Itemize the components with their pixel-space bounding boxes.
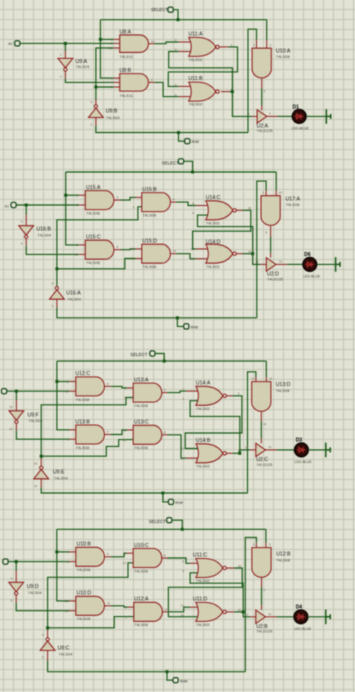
inverter U9:E output net: [41, 398, 133, 459]
inverter U16:A: [50, 290, 65, 299]
node U16:A out branch: [55, 267, 58, 270]
svg-text:12: 12: [251, 376, 255, 380]
node U9:E out branch: [40, 455, 43, 458]
svg-text:9: 9: [124, 552, 126, 556]
wire to U12:C pin9: [57, 381, 70, 383]
svg-text:6: 6: [42, 633, 44, 637]
svg-text:U11:B: U11:B: [189, 76, 204, 82]
terminal R/W: [163, 493, 169, 502]
inverter U9:D input wire: [15, 562, 17, 571]
wire SELECT bus: [66, 171, 277, 173]
and gate U15:C: [79, 244, 85, 246]
svg-text:74LS08: 74LS08: [142, 264, 157, 269]
svg-text:74LS08: 74LS08: [75, 445, 90, 450]
node U11:B output: [231, 90, 234, 93]
wire U11:C out to U11:D pin12: [226, 567, 234, 569]
svg-text:74LS02: 74LS02: [206, 264, 221, 269]
wire select right leg to U13:D: [265, 361, 267, 377]
node SELECT junction: [181, 528, 184, 531]
svg-text:1: 1: [60, 52, 62, 56]
buffer U2:D: [266, 258, 276, 271]
svg-text:6: 6: [175, 93, 177, 97]
svg-text:74LS125: 74LS125: [256, 629, 273, 634]
svg-text:3: 3: [238, 392, 240, 396]
svg-text:74LS125: 74LS125: [267, 276, 284, 281]
svg-text:U9:B: U9:B: [106, 108, 118, 114]
svg-text:U8:B: U8:B: [120, 68, 132, 74]
wire U8:A out to U11:A pin2: [149, 43, 155, 45]
svg-text:3: 3: [164, 388, 166, 392]
svg-text:5: 5: [66, 560, 68, 564]
wire to U15:A pin1: [66, 194, 80, 196]
wire U12:B out to U2:B enable: [261, 578, 263, 588]
svg-text:9: 9: [262, 191, 264, 195]
wire select right leg to U10:A: [266, 20, 268, 40]
wire U2:B out to D4: [266, 616, 277, 618]
svg-text:13: 13: [269, 376, 273, 380]
wire to U8:A pin1: [100, 38, 113, 40]
and gate U8:A: [114, 38, 120, 40]
svg-text:2: 2: [124, 396, 126, 400]
svg-text:2: 2: [175, 38, 177, 42]
svg-text:U11:A: U11:A: [189, 31, 204, 37]
svg-text:U14:D: U14:D: [206, 240, 221, 246]
svg-text:U10:D: U10:D: [77, 591, 92, 597]
wire A3 line: [8, 561, 70, 563]
wire U2:A out to D1: [267, 115, 278, 117]
wire D6 to ground: [317, 263, 336, 265]
svg-text:74LS125: 74LS125: [256, 462, 273, 467]
node select to U12:C pin9: [55, 380, 58, 383]
wire A1 line: [16, 204, 79, 206]
wire U10:C out to U11:C pin8: [162, 557, 168, 559]
LED D6: [303, 258, 317, 272]
inverter U9:B: [95, 100, 97, 105]
svg-text:3: 3: [165, 607, 167, 611]
wire U11:A out to U11:B pin5: [219, 46, 228, 48]
svg-text:2: 2: [51, 282, 53, 286]
svg-text:U15:D: U15:D: [142, 238, 157, 244]
wire U17:A out to U2:D enable: [270, 226, 272, 237]
svg-text:R/W: R/W: [175, 501, 183, 505]
node U14:D output: [251, 252, 254, 255]
nor gate U11:D: [196, 602, 223, 621]
node R/W junction: [177, 131, 180, 134]
svg-text:LED-BLUE: LED-BLUE: [295, 460, 313, 464]
node R/W junction: [176, 316, 179, 319]
wire R/W up to U10:A: [248, 29, 257, 132]
and gate U17:A: [261, 196, 280, 226]
wire U9:C input to R/W: [47, 650, 49, 660]
svg-text:12: 12: [65, 599, 69, 603]
svg-text:74LS125: 74LS125: [257, 128, 274, 133]
svg-text:SELECT: SELECT: [130, 352, 147, 357]
wire D3 to ground: [308, 449, 325, 451]
svg-text:13: 13: [65, 609, 69, 613]
node SELECT junction: [177, 18, 180, 21]
wire select left leg: [57, 529, 70, 601]
wire U13:D out to U2:C enable: [260, 412, 262, 422]
svg-text:11: 11: [268, 445, 271, 449]
svg-text:12: 12: [9, 427, 13, 431]
wire U12:A out to U11:D pin13: [163, 611, 170, 613]
svg-text:U12:C: U12:C: [75, 371, 90, 377]
svg-text:U13:C: U13:C: [134, 420, 149, 426]
svg-text:6: 6: [263, 588, 265, 592]
nor gate U14:A: [196, 386, 223, 405]
wire U12:C out to U13:A pin1: [105, 385, 111, 387]
wire SELECT to bus: [155, 354, 165, 362]
svg-text:U8:A: U8:A: [120, 30, 132, 36]
svg-text:U12:A: U12:A: [134, 597, 149, 603]
svg-text:U14:A: U14:A: [196, 380, 211, 386]
svg-text:1: 1: [124, 386, 126, 390]
svg-text:74LS08: 74LS08: [276, 388, 291, 393]
wire branch to U15:D pin13: [57, 259, 136, 269]
node select to U8:A pin1: [99, 38, 102, 41]
svg-text:74LS02: 74LS02: [196, 464, 211, 469]
svg-text:74LS02: 74LS02: [189, 57, 204, 62]
wire select right leg to U12:B: [265, 529, 267, 543]
svg-text:LED-BLUE: LED-BLUE: [303, 275, 321, 279]
svg-text:74LS04: 74LS04: [28, 590, 43, 595]
node U9:C out branch: [46, 626, 49, 629]
and gate U8:B: [114, 77, 120, 79]
svg-text:SELECT: SELECT: [151, 7, 168, 12]
svg-text:12: 12: [255, 260, 259, 264]
wire U9:D out to U10:D pin13: [15, 595, 17, 602]
svg-text:13: 13: [248, 250, 252, 254]
svg-text:4: 4: [67, 428, 69, 432]
svg-text:5: 5: [42, 655, 44, 659]
svg-text:3: 3: [269, 112, 271, 116]
wire U10:A out to U2:A enable: [261, 78, 263, 88]
svg-text:74LS11: 74LS11: [120, 93, 134, 98]
wire U9:A input: [64, 43, 66, 51]
svg-text:1: 1: [51, 304, 53, 308]
nor gate U11:A: [189, 37, 216, 56]
svg-text:13: 13: [181, 456, 185, 460]
ground: [326, 610, 330, 625]
terminal R/W: [177, 318, 184, 327]
svg-text:4: 4: [90, 100, 92, 104]
wire select right leg to U17:A: [275, 172, 277, 191]
svg-text:A0: A0: [8, 42, 12, 46]
svg-text:4: 4: [21, 242, 23, 246]
svg-text:10: 10: [75, 253, 79, 257]
ground: [326, 443, 330, 458]
wire R/W up to U13:D: [248, 372, 256, 493]
svg-text:2: 2: [270, 43, 272, 47]
wire U9:F out to U13:B pin5: [15, 424, 17, 431]
node U11:D output: [242, 610, 245, 613]
svg-text:13: 13: [131, 257, 135, 261]
svg-text:8: 8: [182, 559, 184, 563]
wire U11:D out to U2:B input: [243, 612, 250, 617]
and gate U13:B: [70, 429, 76, 431]
nor gate U14:B: [196, 444, 223, 463]
wire to U10:B pin4: [57, 551, 70, 553]
and gate U13:C: [133, 425, 162, 444]
svg-text:1: 1: [125, 605, 127, 609]
svg-text:12: 12: [151, 39, 155, 43]
svg-text:3: 3: [264, 89, 266, 93]
and gate U13:A: [133, 383, 162, 402]
svg-text:U11:D: U11:D: [193, 597, 208, 603]
svg-text:74LS08: 74LS08: [134, 622, 149, 627]
svg-text:1: 1: [182, 387, 184, 391]
svg-text:3: 3: [90, 123, 92, 127]
svg-text:D6: D6: [304, 252, 311, 258]
svg-text:4: 4: [111, 81, 113, 85]
wire U13:A out to U14:A pin1: [162, 392, 168, 394]
svg-text:2: 2: [111, 42, 113, 46]
svg-text:5: 5: [111, 85, 113, 89]
inverter U9:C output net: [48, 563, 134, 630]
wire U11:B out to U2:A input: [221, 91, 230, 93]
buffer U2:A: [257, 110, 267, 123]
svg-text:U15:B: U15:B: [142, 187, 157, 193]
wire U13:B out to U13:C pin9: [105, 434, 111, 436]
svg-text:9: 9: [124, 428, 126, 432]
and gate U10:A: [252, 48, 271, 78]
and gate U13:D: [252, 382, 271, 412]
and gate U15:B: [142, 193, 171, 212]
wire branch to U13:C pin10: [41, 440, 133, 457]
terminal A2: [2, 389, 7, 394]
wire U16:A input to R/W: [56, 299, 58, 307]
wire select left leg: [57, 361, 70, 430]
wire U9:A output to U8:B pin4: [64, 71, 66, 78]
inverter U9:C: [47, 630, 49, 638]
svg-text:A1: A1: [5, 205, 9, 209]
svg-text:74LS02: 74LS02: [206, 220, 221, 225]
svg-text:74LS08: 74LS08: [86, 210, 101, 215]
inverter U9:A: [58, 58, 73, 67]
wire SELECT to bus: [183, 161, 192, 172]
wire U9:E input to R/W: [40, 479, 42, 488]
wire U8:B out to U11:B pin6: [149, 81, 155, 83]
svg-text:11: 11: [268, 612, 271, 616]
and gate U15:D: [142, 244, 171, 263]
buffer U2:C: [256, 443, 266, 456]
svg-text:D1: D1: [293, 104, 300, 110]
svg-text:U10:C: U10:C: [134, 543, 149, 549]
LED D4: [294, 610, 308, 624]
wire U15:D out to U14:D pin12: [171, 253, 177, 255]
svg-text:74LS04: 74LS04: [54, 475, 69, 480]
inverter U9:F: [9, 411, 24, 420]
svg-text:10: 10: [248, 206, 252, 210]
and gate U15:A: [79, 194, 85, 196]
node R/W junction: [166, 670, 169, 673]
svg-text:LED-BLUE: LED-BLUE: [292, 127, 310, 131]
wire A2 line: [6, 390, 69, 392]
svg-text:9: 9: [192, 211, 194, 215]
svg-text:74LS08: 74LS08: [134, 403, 149, 408]
svg-text:U14:C: U14:C: [206, 195, 221, 201]
wire U16:B out to U15:C pin10: [25, 239, 27, 246]
svg-text:74LS08: 74LS08: [86, 260, 101, 265]
node R/W junction: [161, 492, 164, 495]
svg-text:74LS04: 74LS04: [76, 64, 91, 69]
wire U14:A out to U14:B pin11: [226, 395, 232, 397]
nor gate U14:D: [206, 244, 233, 263]
svg-text:74LS08: 74LS08: [134, 445, 149, 450]
wire U16:A out net: [57, 207, 142, 287]
wire R/W up to U12:B: [245, 538, 256, 672]
svg-text:11: 11: [173, 249, 176, 253]
svg-text:1: 1: [231, 43, 233, 47]
svg-text:74LS08: 74LS08: [77, 567, 92, 572]
wire U13:C out to U14:B pin13: [162, 434, 168, 436]
svg-text:12: 12: [131, 247, 135, 251]
node U14:B output: [238, 452, 241, 455]
terminal R/W: [179, 133, 185, 142]
svg-text:10: 10: [65, 389, 69, 393]
svg-text:13: 13: [109, 46, 113, 50]
terminal R/W: [167, 672, 173, 681]
svg-text:12: 12: [191, 257, 195, 261]
svg-text:11: 11: [238, 608, 241, 612]
node SELECT junction: [191, 171, 194, 174]
svg-text:6: 6: [107, 552, 109, 556]
svg-text:74LS04: 74LS04: [106, 115, 121, 120]
svg-text:9: 9: [76, 243, 78, 247]
svg-text:5: 5: [67, 438, 69, 442]
wire D4 to ground: [308, 616, 326, 618]
svg-text:5: 5: [269, 542, 271, 546]
svg-text:R/W: R/W: [191, 326, 199, 330]
svg-text:74LS04: 74LS04: [37, 232, 52, 237]
svg-text:2: 2: [125, 615, 127, 619]
svg-text:U10:B: U10:B: [77, 542, 92, 548]
node A1 to U16:B: [25, 204, 28, 207]
svg-text:6: 6: [151, 78, 153, 82]
svg-text:2: 2: [182, 397, 184, 401]
svg-text:8: 8: [107, 382, 109, 386]
svg-text:74LS02: 74LS02: [196, 622, 211, 627]
wire R/W up to U17:A: [257, 181, 266, 318]
wire to U8:B pin5: [96, 86, 114, 88]
svg-text:74LS02: 74LS02: [189, 102, 204, 107]
svg-text:74LS04: 74LS04: [59, 651, 74, 656]
and gate U10:C: [133, 549, 162, 568]
svg-text:4: 4: [133, 196, 135, 200]
svg-text:9: 9: [182, 569, 184, 573]
svg-text:SELECT: SELECT: [149, 519, 166, 524]
nor gate U11:C: [196, 559, 223, 578]
buffer U2:B: [256, 610, 266, 623]
nor gate U14:C: [206, 201, 233, 220]
svg-text:74LS04: 74LS04: [67, 296, 82, 301]
LED D3: [295, 443, 309, 457]
wire U14:D out latch feedback to U14:C pin9: [236, 253, 242, 255]
nor gate U11:B: [189, 82, 216, 101]
svg-text:R/W: R/W: [192, 140, 200, 144]
svg-text:U15:C: U15:C: [86, 235, 101, 241]
svg-text:8: 8: [265, 231, 267, 235]
and gate U12:C: [70, 381, 76, 383]
svg-text:8: 8: [164, 430, 166, 434]
svg-text:4: 4: [253, 542, 255, 546]
node A0 to U9:A: [64, 42, 67, 45]
inverter U16:B: [19, 226, 34, 235]
svg-text:13: 13: [9, 405, 13, 409]
svg-text:U15:A: U15:A: [86, 185, 101, 191]
terminal A3: [3, 559, 8, 564]
wire U14:D out to U2:D input: [253, 254, 261, 265]
inverter U9:E: [40, 459, 42, 466]
svg-text:6: 6: [173, 198, 175, 202]
svg-text:74LS02: 74LS02: [196, 578, 211, 583]
ground: [326, 109, 330, 124]
svg-text:U13:B: U13:B: [75, 420, 90, 426]
svg-text:11: 11: [34, 484, 37, 488]
node A2 to U9:F: [15, 390, 18, 393]
wire U15:A out to U15:B pin4: [114, 199, 121, 201]
svg-text:8: 8: [11, 598, 13, 602]
svg-text:11: 11: [263, 422, 266, 426]
wire U10:B out to U10:C pin9: [105, 556, 111, 558]
svg-text:1: 1: [253, 43, 255, 47]
svg-text:74LS02: 74LS02: [196, 406, 211, 411]
wire U2:C out to D3: [266, 449, 277, 451]
svg-text:10: 10: [34, 461, 38, 465]
svg-text:74LS08: 74LS08: [142, 212, 157, 217]
svg-text:74LS11: 74LS11: [120, 54, 134, 59]
and gate U10:D: [70, 600, 76, 602]
node A3 to U9:D: [15, 560, 18, 563]
svg-text:SELECT: SELECT: [162, 161, 179, 166]
svg-text:12: 12: [245, 612, 249, 616]
svg-text:2: 2: [60, 74, 62, 78]
svg-text:2: 2: [248, 112, 250, 116]
svg-text:11: 11: [181, 447, 184, 451]
and gate U12:A: [134, 602, 163, 621]
svg-text:11: 11: [107, 601, 110, 605]
wire U11:D out latch feedback to U11:C pin9: [226, 611, 234, 613]
inverter U9:D: [9, 582, 24, 591]
svg-text:74LS08: 74LS08: [77, 616, 92, 621]
wire D1 to ground: [306, 115, 326, 117]
svg-text:2: 2: [76, 203, 78, 207]
svg-text:74LS08: 74LS08: [75, 397, 90, 402]
wire U2:D out to D6: [276, 263, 287, 265]
wire U14:B out latch feedback to U14:A pin2: [226, 452, 232, 454]
svg-text:9: 9: [67, 380, 69, 384]
wire select left leg: [100, 20, 113, 78]
svg-text:6: 6: [107, 430, 109, 434]
node SELECT junction: [163, 360, 166, 363]
wire SELECT bus: [57, 528, 266, 530]
wire U10:D out to U12:A pin1: [105, 605, 111, 607]
svg-text:8: 8: [164, 554, 166, 558]
svg-text:10: 10: [238, 564, 242, 568]
inverter U9:F input wire: [15, 391, 17, 400]
node U9:B out to U8:B pin5: [94, 86, 97, 89]
svg-text:3: 3: [21, 220, 23, 224]
svg-text:74LS08: 74LS08: [276, 54, 291, 59]
svg-text:10: 10: [123, 561, 127, 565]
svg-text:11: 11: [279, 260, 282, 264]
svg-text:4: 4: [66, 550, 68, 554]
svg-text:8: 8: [192, 202, 194, 206]
svg-text:D3: D3: [296, 438, 303, 444]
svg-text:10: 10: [279, 191, 283, 195]
wire U9:B output net: [96, 48, 114, 100]
wire U11:A pin3 latch feedback: [179, 51, 191, 53]
